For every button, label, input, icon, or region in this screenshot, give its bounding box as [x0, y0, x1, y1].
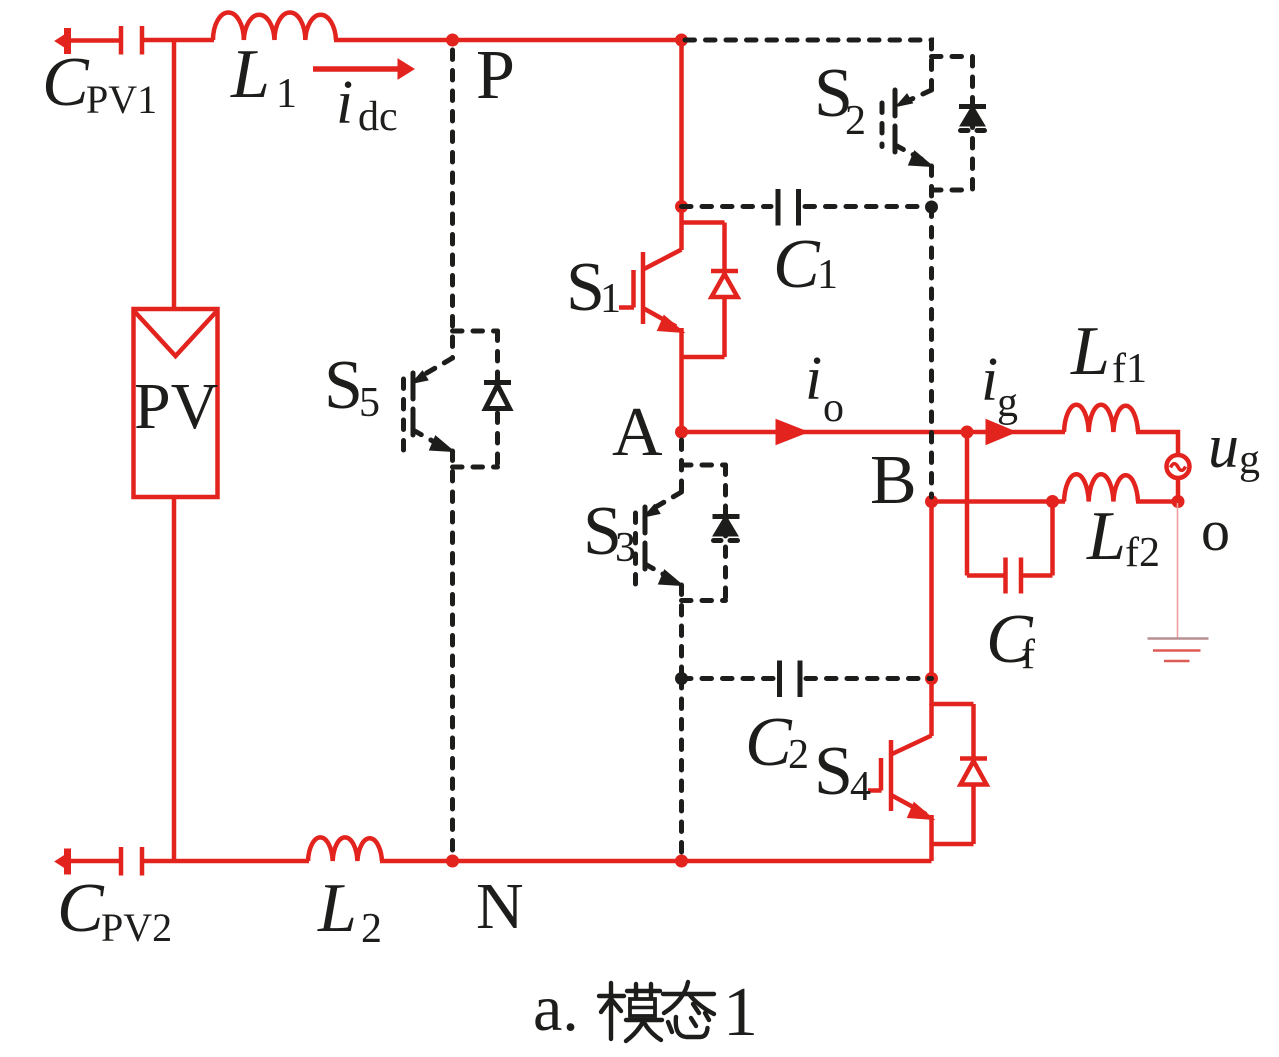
PV source box	[134, 309, 218, 497]
transistor S5 (IGBT dashed)	[404, 358, 453, 861]
wire Lf1 to source	[1136, 432, 1178, 456]
node dot at o	[1172, 495, 1185, 508]
wire PV column top	[172, 40, 177, 310]
svg-text:1: 1	[817, 252, 838, 298]
transistor S2 (IGBT dashed)	[882, 90, 932, 207]
wire io from A	[682, 430, 968, 435]
arrow io	[776, 420, 808, 445]
label S2	[814, 55, 866, 144]
junction dot C2 right	[925, 672, 938, 685]
label ug	[1208, 413, 1260, 483]
svg-text:5: 5	[359, 380, 380, 426]
caption hanzi MO (模)	[599, 983, 662, 1041]
svg-text:dc: dc	[358, 94, 398, 140]
ground symbol	[1148, 639, 1209, 662]
wire CPV2 terminal to plate	[62, 859, 119, 864]
wire Lf2 to node o	[1136, 499, 1178, 504]
svg-text:o: o	[823, 385, 844, 431]
svg-text:PV: PV	[134, 370, 218, 443]
diode D2 symbol	[959, 107, 986, 131]
dashed wire S3 to bottom rail	[679, 679, 684, 859]
node N junction dot	[446, 855, 459, 868]
svg-text:L: L	[317, 870, 357, 947]
diode D1 (antiparallel on S1)	[682, 223, 739, 358]
label io	[805, 345, 844, 431]
transistor S4 (IGBT)	[868, 704, 934, 861]
label C2	[745, 704, 809, 781]
svg-text:1: 1	[276, 71, 297, 117]
svg-text:P: P	[476, 37, 515, 114]
capacitor C2 dashed leads	[682, 676, 932, 681]
inductor L2	[308, 837, 382, 861]
wire ig	[967, 430, 1065, 435]
wire Cf bottom left	[967, 573, 1004, 578]
node B junction dot	[925, 495, 938, 508]
svg-text:g: g	[997, 380, 1018, 426]
svg-text:4: 4	[850, 764, 871, 810]
node P junction dot	[446, 34, 459, 47]
svg-text:C: C	[773, 226, 821, 303]
wire P-node to S1 top	[679, 38, 684, 208]
diode D3 (antiparallel on S3)	[682, 465, 726, 601]
arrow S5 emitter	[430, 436, 455, 452]
arrow ig	[986, 420, 1016, 445]
label C1	[773, 226, 838, 303]
caption hanzi TAI (态)	[663, 982, 714, 1037]
wire source to node o	[1176, 478, 1181, 502]
arrow S3 gate diagonal	[644, 505, 661, 518]
dashed wire A to S3	[679, 440, 684, 492]
svg-text:B: B	[870, 442, 917, 519]
wire Cf left leg	[965, 432, 970, 576]
junction dot top rail right	[675, 34, 688, 47]
wire Cf right leg	[1050, 502, 1055, 576]
arrow S2 gate diagonal	[896, 94, 913, 107]
label L2	[317, 870, 382, 952]
inductor L1	[213, 12, 336, 40]
label S3	[583, 493, 636, 571]
wire CPV1 terminal to plate	[62, 38, 119, 43]
svg-text:f: f	[1021, 632, 1035, 678]
label ig	[981, 346, 1018, 426]
capacitor C1 dashed leads	[682, 204, 932, 209]
wire PV column bottom	[172, 496, 177, 861]
wire bottom rail right	[380, 859, 932, 864]
junction dot bottom S3 column	[675, 855, 688, 868]
svg-text:a.: a.	[533, 972, 579, 1045]
arrow idc	[313, 59, 414, 79]
arrow S2 emitter	[909, 151, 934, 167]
junction dot S1 top	[675, 200, 688, 213]
svg-text:PV2: PV2	[101, 905, 172, 950]
label Lf2	[1086, 498, 1160, 576]
svg-text:N: N	[476, 870, 524, 943]
svg-text:C: C	[57, 870, 105, 947]
ground lead wire	[1177, 503, 1179, 638]
svg-text:L: L	[1086, 498, 1126, 575]
svg-text:S: S	[814, 733, 853, 810]
capacitor CPV1 plates	[121, 26, 142, 55]
wire bottom rail left	[144, 859, 309, 864]
svg-text:L: L	[1070, 313, 1110, 390]
svg-text:i: i	[805, 345, 822, 413]
junction dot Cf right	[1046, 495, 1059, 508]
svg-text:2: 2	[361, 906, 382, 952]
capacitor CPV1 terminal	[56, 28, 70, 54]
svg-text:3: 3	[615, 525, 636, 571]
dashed top rail to S2	[685, 40, 932, 90]
label L1	[230, 36, 297, 117]
wire B line	[932, 499, 1066, 504]
transistor S3 (IGBT dashed)	[636, 492, 682, 679]
diode D5 (antiparallel on S5)	[453, 331, 498, 467]
label S5	[324, 347, 380, 426]
wire top rail right	[334, 38, 682, 43]
svg-text:S: S	[324, 347, 363, 424]
label S1	[566, 249, 621, 326]
capacitor Cf plates	[1006, 558, 1022, 594]
label Lf1	[1070, 313, 1147, 392]
label idc	[336, 69, 398, 140]
svg-text:2: 2	[845, 98, 866, 144]
capacitor CPV2 plates	[121, 847, 142, 876]
dashed wire P to S5	[450, 50, 455, 358]
svg-text:C: C	[745, 704, 793, 781]
diode D3 symbol	[713, 517, 740, 541]
capacitor C2 plates	[780, 661, 801, 698]
svg-text:o: o	[1201, 498, 1230, 563]
label CPV2	[57, 870, 172, 950]
transistor S1 (IGBT)	[619, 206, 684, 432]
dashed wire S2 emitter to B	[929, 207, 934, 497]
wire Cf bottom right	[1022, 573, 1053, 578]
inductor Lf2	[1064, 474, 1138, 501]
svg-text:u: u	[1208, 413, 1239, 481]
ac source ug	[1167, 455, 1190, 478]
svg-text:2: 2	[788, 732, 809, 778]
svg-text:C: C	[42, 44, 90, 121]
svg-text:PV1: PV1	[86, 77, 157, 122]
svg-text:1: 1	[600, 276, 621, 322]
capacitor CPV2 terminal	[56, 849, 70, 875]
svg-text:i: i	[336, 69, 353, 137]
junction dot S3 / C2	[675, 672, 688, 685]
svg-text:f2: f2	[1125, 530, 1160, 576]
capacitor C1 plates	[778, 189, 799, 226]
inductor Lf1	[1064, 405, 1138, 432]
node ig junction dot	[961, 426, 974, 439]
diode D4 (antiparallel on S4)	[932, 704, 988, 844]
svg-text:g: g	[1239, 437, 1260, 483]
label CPV1	[42, 44, 157, 122]
svg-text:L: L	[230, 36, 270, 113]
label Cf	[986, 601, 1035, 678]
node A junction dot	[675, 426, 688, 439]
diode D2 (antiparallel on S2)	[932, 57, 973, 191]
svg-text:1: 1	[723, 974, 758, 1051]
svg-text:i: i	[981, 346, 998, 414]
arrow S5 gate diagonal	[412, 371, 429, 384]
junction dot S2 emitter / C1	[925, 201, 938, 214]
wire top rail left	[144, 38, 214, 43]
diode D5 symbol	[484, 383, 511, 409]
svg-text:A: A	[612, 394, 663, 471]
label S4	[814, 733, 871, 810]
wire B down to S4	[929, 502, 934, 706]
arrow S3 emitter	[659, 570, 684, 586]
svg-text:f1: f1	[1112, 346, 1147, 392]
